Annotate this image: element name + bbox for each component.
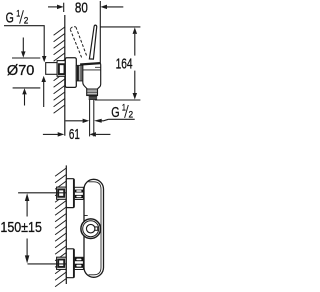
- lower flange: [66, 249, 74, 278]
- cap thick top: [80, 63, 100, 64]
- svg-text:1: 1: [16, 9, 20, 20]
- svg-text:G: G: [6, 11, 14, 27]
- label G 1/2 (bottom right): [111, 103, 133, 121]
- arrow wall to pipe: [65, 120, 82, 122]
- svg-text:Ø70: Ø70: [7, 62, 35, 79]
- upper flange: [66, 179, 74, 208]
- dim 164: extension lines: [100, 26, 140, 28]
- solid lever handle: [89, 25, 96, 59]
- lower union nut: [74, 257, 83, 269]
- dim O70: bottom arrow: [24, 94, 26, 105]
- dim 164: line + arrows: [133, 27, 138, 34]
- wall hatching: [55, 168, 66, 287]
- G 1/2 leader (top): [4, 26, 44, 57]
- label G 1/2 (top left): [6, 9, 29, 27]
- svg-text:1: 1: [122, 103, 126, 114]
- body capsule: [84, 179, 104, 277]
- hose pipe: [89, 100, 91, 136]
- svg-text:80: 80: [75, 0, 88, 17]
- supply pipe stub in wall: [46, 63, 57, 75]
- dashed lever (alternate position): [70, 27, 87, 59]
- union nut: [76, 65, 84, 81]
- upper in-wall fitting: [57, 187, 67, 199]
- dark hose connector: [89, 96, 97, 98]
- wall face line: [65, 165, 67, 284]
- svg-text:2: 2: [24, 15, 29, 26]
- dim 80: right arrow: [107, 6, 123, 8]
- svg-text:61: 61: [69, 126, 80, 143]
- dim O70: top arrow: [22, 38, 24, 52]
- svg-text:2: 2: [129, 110, 134, 121]
- mixer body: [83, 63, 101, 89]
- dim 61: [43, 133, 58, 135]
- svg-text:G: G: [111, 105, 119, 121]
- G 1/2 leader (bottom right): [108, 118, 134, 120]
- wall hatching: [54, 27, 65, 113]
- upper union nut: [74, 187, 83, 199]
- svg-text:150±15: 150±15: [0, 219, 42, 236]
- dim 150±15: extension lines: [18, 192, 66, 194]
- cap seams: [83, 69, 101, 71]
- dim 80: left arrow: [48, 6, 57, 8]
- outlet ribbed nut: [87, 89, 98, 95]
- dim O70: extension lines: [12, 57, 40, 59]
- dim 80: extension ticks: [63, 3, 65, 12]
- dim 150±15: line + arrows: [25, 193, 30, 201]
- wall face line: [64, 15, 66, 136]
- svg-text:164: 164: [116, 55, 133, 72]
- in-wall fitting: [57, 61, 65, 77]
- outlet circle: [81, 219, 101, 239]
- lower in-wall fitting: [57, 257, 67, 269]
- lower leader arrow of connection: [43, 82, 45, 107]
- escutcheon flange: [65, 58, 76, 88]
